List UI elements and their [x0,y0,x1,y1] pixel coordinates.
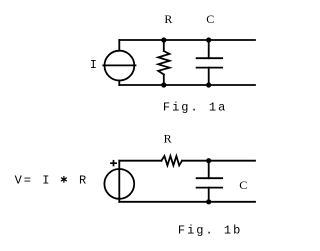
svg-text:Fig. 1b: Fig. 1b [178,224,242,238]
svg-text:R: R [164,131,172,145]
svg-text:R: R [164,12,172,26]
svg-text:C: C [206,12,214,26]
svg-text:Fig. 1a: Fig. 1a [163,101,227,115]
svg-text:C: C [239,178,247,192]
svg-text:I: I [90,58,99,72]
svg-text:V= I R: V= I R [15,174,89,188]
